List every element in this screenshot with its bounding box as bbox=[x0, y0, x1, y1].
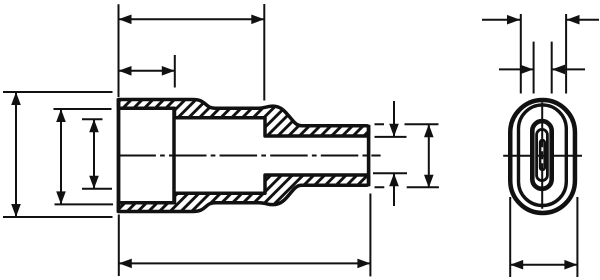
dimension: counterbore height (left middle) bbox=[54, 109, 114, 204]
end view: fourth stadium bbox=[537, 129, 548, 180]
left open-end edge of boot bbox=[117, 99, 121, 213]
dimension: overall length (bottom) bbox=[119, 194, 371, 277]
end view: third stadium (middle bore) bbox=[532, 121, 551, 189]
end view horizontal centerline bbox=[503, 155, 582, 157]
section view: bottom wall of boot (hatched cut, mirror) bbox=[119, 175, 369, 212]
centerline of side view (dash-dot) bbox=[118, 155, 380, 157]
dimension: middle bore height (left inner) bbox=[82, 119, 112, 189]
dimension: counterbore depth (top, small) bbox=[119, 55, 175, 88]
end view: outer stadium outline bbox=[510, 100, 575, 213]
dimension: tube bore diameter (right, outside arrows) bbox=[373, 101, 407, 206]
internal bore step face bbox=[172, 108, 176, 203]
dimension: end view slot width (lower) bbox=[499, 42, 585, 94]
dimension: overall length to shoulder (top) bbox=[119, 4, 265, 101]
dimension: end view outer width (bottom) bbox=[510, 197, 577, 277]
tube end face bbox=[367, 125, 371, 186]
end view: innermost slot bbox=[540, 140, 545, 170]
end view: second stadium (counterbore opening) bbox=[519, 105, 567, 206]
dimension: outer height (left outer) bbox=[3, 92, 113, 217]
end view vertical centerline bbox=[541, 102, 543, 208]
dimension: end view second stadium width (upper) bbox=[482, 14, 599, 94]
dimension: tube outer diameter (right, inside arrows) bbox=[375, 124, 439, 188]
section view: top wall of boot (hatched cut) bbox=[119, 100, 369, 137]
